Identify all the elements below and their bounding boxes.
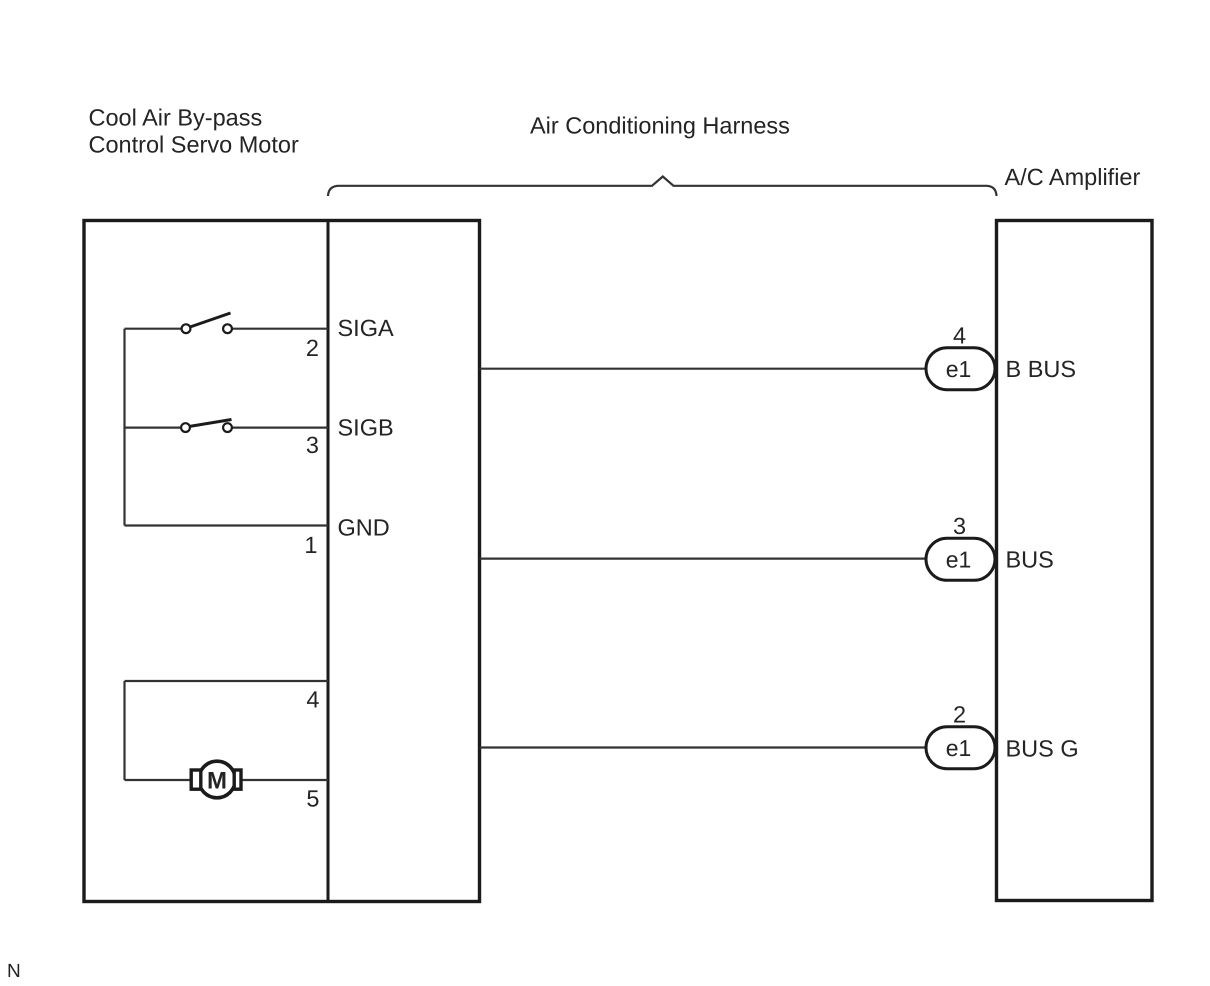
wire: BUS G bbox=[480, 746, 929, 748]
motor M1 right brush bbox=[234, 770, 241, 789]
svg-text:2: 2 bbox=[306, 335, 319, 361]
wire: motor loop bottom pin 5 bbox=[125, 779, 329, 781]
motor M1 body bbox=[199, 761, 236, 798]
connector e1 pin 3 oval bbox=[926, 538, 995, 580]
wire: SIGB pin 3 right segment bbox=[232, 427, 328, 429]
wire: SIGA pin 2 left segment bbox=[125, 328, 182, 330]
svg-text:GND: GND bbox=[338, 515, 390, 541]
svg-text:4: 4 bbox=[953, 323, 966, 349]
svg-text:N: N bbox=[7, 961, 21, 982]
switch SW1 contacts bbox=[182, 324, 191, 333]
svg-text:B BUS: B BUS bbox=[1006, 356, 1077, 382]
label: Cool Air By-pass Control Servo Motor bbox=[89, 105, 299, 158]
svg-text:A/C Amplifier: A/C Amplifier bbox=[1005, 164, 1141, 190]
svg-text:M: M bbox=[207, 768, 227, 795]
switch SW2 blade bbox=[189, 420, 232, 427]
wire: BUS bbox=[480, 557, 929, 559]
svg-text:4: 4 bbox=[306, 687, 319, 713]
svg-text:BUS: BUS bbox=[1006, 547, 1054, 573]
switch SW2 contacts bbox=[181, 423, 190, 432]
wire: SIGA pin 2 right segment bbox=[232, 328, 328, 330]
svg-text:1: 1 bbox=[304, 532, 317, 558]
wire: GND pin 1 bbox=[125, 524, 329, 526]
wire: SIGB pin 3 left segment bbox=[125, 427, 181, 429]
svg-text:BUS G: BUS G bbox=[1006, 736, 1079, 762]
svg-text:e1: e1 bbox=[946, 356, 972, 382]
connector e1 pin 4 oval bbox=[926, 348, 995, 390]
wire: left rail SIGA-SIGB-GND bbox=[123, 329, 125, 526]
svg-text:SIGA: SIGA bbox=[338, 315, 394, 341]
A/C amplifier box outline bbox=[997, 221, 1153, 901]
svg-text:e1: e1 bbox=[946, 735, 972, 761]
svg-text:5: 5 bbox=[306, 786, 319, 812]
svg-text:SIGB: SIGB bbox=[338, 415, 394, 441]
switch SW1 blade bbox=[190, 313, 231, 327]
svg-text:Cool Air By-pass: Cool Air By-pass bbox=[89, 105, 263, 131]
motor M1 left brush bbox=[191, 770, 201, 789]
servo connector divider line bbox=[327, 219, 330, 902]
svg-text:3: 3 bbox=[306, 432, 319, 458]
wire: motor loop top pin 4 bbox=[125, 680, 329, 682]
servo motor box outline bbox=[84, 221, 480, 902]
svg-text:Air Conditioning Harness: Air Conditioning Harness bbox=[530, 113, 790, 139]
wire: motor loop left rail bbox=[123, 681, 125, 780]
svg-text:Control Servo Motor: Control Servo Motor bbox=[89, 132, 299, 158]
svg-text:3: 3 bbox=[953, 513, 966, 539]
svg-text:2: 2 bbox=[953, 702, 966, 728]
wire: B BUS bbox=[480, 368, 929, 370]
brace spanning harness bbox=[328, 177, 997, 197]
connector e1 pin 2 oval bbox=[926, 727, 995, 769]
svg-text:e1: e1 bbox=[946, 547, 972, 573]
